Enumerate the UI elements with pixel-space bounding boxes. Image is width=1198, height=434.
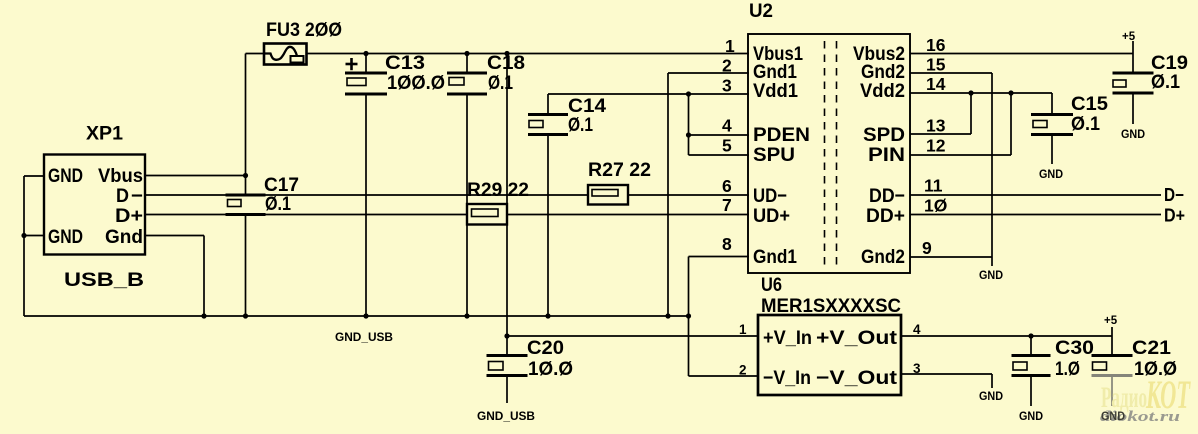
svg-text:GND: GND [979, 268, 1003, 282]
svg-text:MER1SXXXXSC: MER1SXXXXSC [761, 295, 901, 317]
svg-text:8: 8 [722, 234, 732, 254]
svg-text:Gnd2: Gnd2 [861, 246, 905, 268]
svg-text:U2: U2 [749, 0, 773, 22]
svg-text:3: 3 [722, 76, 732, 96]
svg-text:R29 22: R29 22 [467, 179, 529, 201]
svg-text:4: 4 [913, 322, 921, 337]
svg-text:Ø.1: Ø.1 [1151, 71, 1180, 93]
svg-text:D−: D− [1164, 185, 1184, 205]
svg-text:C30: C30 [1055, 337, 1094, 359]
svg-text:+V_In: +V_In [763, 327, 812, 349]
svg-text:1: 1 [725, 36, 735, 56]
svg-text:GND: GND [979, 389, 1003, 403]
svg-text:R27 22: R27 22 [588, 159, 651, 181]
svg-text:Vdd2: Vdd2 [860, 80, 905, 102]
svg-text:−: − [131, 185, 143, 207]
svg-text:1Ø: 1Ø [924, 196, 947, 216]
svg-text:C21: C21 [1132, 337, 1171, 359]
svg-text:GND: GND [1101, 409, 1125, 423]
svg-text:15: 15 [926, 55, 946, 75]
svg-text:14: 14 [926, 74, 946, 94]
svg-text:1Ø.Ø: 1Ø.Ø [528, 358, 573, 380]
svg-text:D: D [116, 185, 129, 207]
svg-text:Ø.1: Ø.1 [265, 193, 291, 215]
svg-text:SPD: SPD [863, 124, 905, 146]
svg-text:XP1: XP1 [86, 123, 123, 145]
svg-text:GND: GND [1121, 127, 1145, 141]
svg-text:2ØØ: 2ØØ [305, 19, 342, 41]
svg-text:9: 9 [922, 238, 932, 258]
svg-text:PDEN: PDEN [753, 124, 810, 146]
svg-text:FU3: FU3 [266, 19, 300, 41]
svg-text:3: 3 [913, 361, 921, 376]
svg-text:Gnd1: Gnd1 [753, 246, 797, 268]
svg-text:Vbus: Vbus [98, 165, 143, 187]
svg-text:D+: D+ [115, 205, 143, 227]
svg-text:1.Ø: 1.Ø [1055, 358, 1080, 380]
svg-text:GND: GND [1019, 409, 1043, 423]
svg-text:U6: U6 [761, 274, 782, 296]
svg-text:Gnd: Gnd [105, 226, 143, 248]
svg-text:PIN: PIN [868, 144, 905, 166]
svg-text:GND: GND [48, 165, 83, 187]
svg-text:1: 1 [739, 322, 747, 337]
svg-text:Vdd1: Vdd1 [753, 80, 798, 102]
svg-text:USB_B: USB_B [64, 269, 144, 291]
svg-text:2: 2 [722, 56, 732, 76]
svg-text:4: 4 [722, 116, 732, 136]
svg-text:GND: GND [1039, 167, 1063, 181]
svg-text:Ø.1: Ø.1 [568, 114, 593, 136]
svg-text:−V_Out: −V_Out [816, 367, 898, 389]
svg-text:C20: C20 [527, 337, 564, 359]
svg-text:GND_USB: GND_USB [335, 330, 393, 344]
svg-text:C18: C18 [487, 52, 525, 74]
svg-text:DD−: DD− [869, 185, 905, 207]
svg-text:DD+: DD+ [866, 205, 905, 227]
svg-text:−V_In: −V_In [763, 367, 811, 389]
svg-text:13: 13 [926, 116, 946, 136]
svg-text:D+: D+ [1164, 206, 1185, 226]
svg-text:GND: GND [48, 226, 83, 248]
svg-text:GND_USB: GND_USB [477, 409, 535, 423]
svg-text:C15: C15 [1071, 93, 1108, 115]
svg-text:C13: C13 [385, 52, 425, 74]
svg-text:Ø.1: Ø.1 [488, 72, 513, 94]
svg-text:UD+: UD+ [753, 205, 790, 227]
svg-text:16: 16 [926, 35, 946, 55]
svg-text:Ø.1: Ø.1 [1071, 113, 1100, 135]
svg-text:2: 2 [739, 363, 747, 378]
svg-text:+5: +5 [1104, 315, 1118, 327]
svg-text:12: 12 [926, 136, 946, 156]
svg-text:5: 5 [722, 136, 732, 156]
svg-text:+5: +5 [1122, 31, 1136, 43]
svg-text:11: 11 [924, 176, 943, 196]
svg-text:1Ø.Ø: 1Ø.Ø [1134, 358, 1177, 380]
svg-text:+V_Out: +V_Out [816, 327, 898, 349]
svg-text:SPU: SPU [753, 144, 795, 166]
svg-text:1ØØ.Ø: 1ØØ.Ø [387, 72, 445, 94]
svg-text:UD−: UD− [753, 185, 787, 207]
svg-text:7: 7 [722, 195, 732, 215]
svg-text:6: 6 [722, 176, 732, 196]
